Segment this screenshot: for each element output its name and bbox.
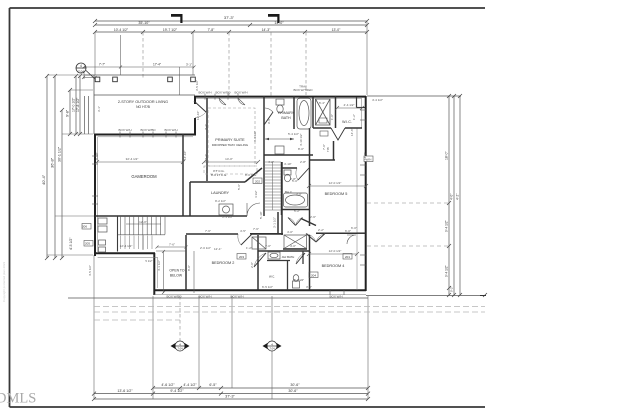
svg-text:7'-0": 7'-0" (265, 244, 271, 248)
dim line segments row (95, 31, 367, 33)
balcony east wall (door gap) (194, 96, 196, 104)
svg-text:BELOW: BELOW (170, 274, 183, 278)
svg-text:Copyright protected plan 2023: Copyright protected plan 2023 (2, 261, 6, 302)
wc walls bottom (267, 260, 290, 262)
svg-text:4'-1 1/2": 4'-1 1/2" (157, 260, 161, 271)
svg-text:7'-7": 7'-7" (99, 63, 105, 67)
svg-text:204: 204 (311, 274, 316, 278)
west wall (94, 134, 96, 256)
svg-text:2'-2": 2'-2" (318, 228, 324, 232)
bottom ticks (92, 386, 370, 401)
svg-text:4: 4 (80, 64, 82, 68)
svg-text:8'-0 LT C.G.: 8'-0 LT C.G. (211, 173, 227, 177)
outdoor living south wall (94, 134, 196, 136)
svg-text:BOX W/BD: BOX W/BD (166, 295, 182, 299)
svg-text:10'-4 1/2": 10'-4 1/2" (114, 28, 129, 32)
svg-text:12'-0 1/2": 12'-0 1/2" (329, 181, 342, 185)
dim line 37'-3 (95, 20, 367, 22)
svg-text:7.04: 7.04 (269, 347, 275, 351)
svg-text:9'-8": 9'-8" (66, 109, 70, 117)
svg-text:17'-8 1/2": 17'-8 1/2" (76, 97, 80, 112)
svg-text:4'-5 1/2": 4'-5 1/2" (69, 237, 73, 250)
svg-text:30'-6": 30'-6" (290, 383, 300, 387)
svg-text:3'-1": 3'-1" (186, 63, 192, 67)
svg-text:6'-5 1/2": 6'-5 1/2" (262, 285, 273, 289)
gameroom south wall (94, 252, 155, 254)
bath arrow dim (265, 138, 294, 140)
svg-text:4'-10 1/2": 4'-10 1/2" (299, 133, 303, 146)
svg-text:BEDROOM 4: BEDROOM 4 (322, 264, 345, 268)
svg-text:BA.3: BA.3 (285, 190, 292, 194)
posts dim line (83, 66, 196, 69)
svg-text:7'-6": 7'-6" (169, 243, 175, 247)
svg-text:36'-8": 36'-8" (50, 157, 55, 168)
wc toilet bottom (293, 275, 300, 288)
south wall (154, 289, 366, 291)
powder bottom fixtures (252, 237, 266, 249)
svg-text:2'-0": 2'-0" (250, 262, 254, 268)
svg-text:3'-5 1/2": 3'-5 1/2" (195, 80, 199, 91)
svg-text:7.04: 7.04 (177, 347, 183, 351)
main stair (vertical run) (264, 162, 281, 210)
svg-text:PRIMARY: PRIMARY (278, 111, 295, 115)
svg-text:14'-3": 14'-3" (262, 28, 271, 32)
svg-text:LAUNDRY: LAUNDRY (211, 191, 230, 195)
closet left of stairs (117, 216, 119, 252)
boxed tags (82, 118, 352, 278)
svg-text:5'-6": 5'-6" (237, 184, 241, 190)
svg-text:14'-6": 14'-6" (363, 152, 367, 160)
east wall (365, 96, 367, 291)
black angle marks (171, 14, 280, 23)
primary toilet (275, 99, 284, 154)
tick marks top dims (93, 19, 369, 34)
fan/section callout symbols (175, 341, 277, 351)
bottom section walls (186, 233, 238, 235)
extension drop lines from top dims (95, 21, 367, 95)
bedroom5 south wall (301, 219, 316, 226)
svg-text:8'-0": 8'-0" (187, 265, 191, 271)
open to below dims (156, 246, 195, 295)
NE corner chase (357, 97, 366, 108)
dim line 35'-10 (95, 24, 367, 26)
svg-text:12'-4 1/2": 12'-4 1/2" (120, 244, 133, 248)
svg-text:14'-6": 14'-6" (350, 128, 354, 136)
svg-text:3'-1 1/2": 3'-1 1/2" (222, 215, 233, 219)
svg-text:3'-0": 3'-0" (296, 192, 302, 196)
svg-text:35'-10": 35'-10" (138, 21, 150, 25)
svg-text:PRIMARY SUITE: PRIMARY SUITE (215, 138, 245, 142)
svg-text:30'-6": 30'-6" (288, 389, 298, 393)
svg-text:T/B: T/B (326, 147, 330, 152)
laundry north wall (190, 181, 245, 183)
bottom vertical extension lines (94, 255, 368, 399)
svg-text:12'-10": 12'-10" (196, 111, 200, 120)
inner wall face lines (98, 99, 366, 295)
svg-text:4'-4 1/2": 4'-4 1/2" (372, 98, 383, 102)
svg-text:14'-0": 14'-0" (225, 157, 233, 161)
svg-text:1'-2": 1'-2" (246, 246, 252, 250)
svg-text:7'-8": 7'-8" (208, 28, 216, 32)
svg-text:17'-0 1/2": 17'-0 1/2" (72, 97, 76, 112)
svg-text:32'-4 1/2": 32'-4 1/2" (126, 157, 139, 161)
east wall window marks + tag (330, 110, 366, 295)
shower x-box (316, 99, 331, 125)
svg-text:DMLS: DMLS (0, 391, 36, 407)
svg-text:BOX W/H: BOX W/H (198, 295, 211, 299)
svg-text:6'-0": 6'-0" (351, 226, 357, 230)
svg-text:3'-1 1/2": 3'-1 1/2" (273, 217, 277, 228)
svg-text:8'-0": 8'-0" (298, 147, 304, 151)
svg-text:4'-4 1/2": 4'-4 1/2" (183, 383, 197, 387)
svg-text:4'-2": 4'-2" (268, 160, 274, 164)
svg-text:J&J BATH: J&J BATH (282, 255, 295, 259)
svg-text:BOX W/BD: BOX W/BD (140, 128, 156, 132)
svg-text:7'-6": 7'-6" (205, 229, 211, 233)
notch west wall (153, 253, 155, 295)
primary bath south wall (264, 154, 313, 156)
svg-text:9'-4 1/2": 9'-4 1/2" (170, 389, 184, 393)
svg-text:5'-4": 5'-4" (319, 101, 325, 105)
svg-text:8'-0 C.G.: 8'-0 C.G. (245, 173, 257, 177)
dashed ceiling box primary hall (204, 108, 257, 174)
svg-text:37'-3": 37'-3" (225, 395, 235, 399)
tiny scattered dimension texts (118, 80, 313, 160)
svg-text:4 1/2": 4 1/2" (254, 190, 258, 198)
svg-text:19'-7 1/2": 19'-7 1/2" (163, 28, 178, 32)
outdoor living thin boundary + posts (84, 75, 195, 134)
svg-text:13'-0": 13'-0" (332, 28, 341, 32)
bath divider (293, 96, 295, 129)
left dim ticks (45, 74, 82, 260)
mbath vanity (268, 252, 280, 259)
laundry diagonal (245, 168, 262, 182)
svg-text:6'-3 1/2": 6'-3 1/2" (294, 278, 304, 282)
svg-text:7'-4": 7'-4" (204, 154, 208, 160)
svg-text:9'-4 1/2": 9'-4 1/2" (445, 220, 449, 232)
svg-text:4'-4 1/2": 4'-4 1/2" (344, 103, 355, 107)
svg-text:W.C.: W.C. (269, 275, 275, 279)
svg-text:12'-0": 12'-0" (139, 220, 147, 224)
svg-text:W.I.C.: W.I.C. (342, 120, 352, 124)
svg-text:4'-0": 4'-0" (450, 194, 454, 200)
svg-text:GAMEROOM: GAMEROOM (131, 174, 157, 179)
callout circle top-left (76, 63, 95, 79)
svg-text:BOX W/H: BOX W/H (164, 128, 177, 132)
tub primary (297, 98, 311, 129)
linen closet with X (283, 248, 307, 250)
balcony door arc (194, 101, 206, 112)
svg-text:2'-8": 2'-8" (300, 160, 306, 164)
WIC west wall (335, 96, 337, 128)
bed5 bath fixtures (284, 170, 308, 207)
svg-text:9'-4 1/2": 9'-4 1/2" (445, 265, 449, 277)
svg-text:BOX W/TRED: BOX W/TRED (293, 88, 313, 92)
svg-text:5 1/2": 5 1/2" (145, 259, 152, 263)
svg-text:206: 206 (82, 225, 87, 229)
svg-text:BOX W/H: BOX W/H (329, 295, 342, 299)
svg-text:1'-0": 1'-0" (330, 114, 334, 120)
svg-text:18'-0": 18'-0" (445, 151, 449, 160)
svg-text:BOX W/H: BOX W/H (230, 295, 243, 299)
svg-text:OPEN TO: OPEN TO (169, 269, 184, 273)
svg-text:4'-0": 4'-0" (290, 244, 296, 248)
svg-text:12'-1": 12'-1" (214, 247, 222, 251)
svg-text:2'-0 1/2": 2'-0 1/2" (200, 246, 211, 250)
svg-text:5'-4 1/2": 5'-4 1/2" (288, 132, 299, 136)
svg-text:7'-6": 7'-6" (253, 227, 259, 231)
svg-text:4'-0": 4'-0" (287, 230, 293, 234)
svg-text:NO HT/B: NO HT/B (136, 105, 150, 109)
svg-text:30'-1 1/2": 30'-1 1/2" (58, 146, 62, 162)
svg-text:BEDROOM 2: BEDROOM 2 (212, 261, 235, 265)
svg-text:201: 201 (345, 255, 350, 259)
svg-text:5'-10": 5'-10" (259, 211, 263, 219)
svg-text:202: 202 (255, 180, 260, 184)
svg-text:7.04: 7.04 (78, 70, 84, 74)
svg-text:40'-4": 40'-4" (41, 174, 46, 185)
svg-text:14'-10": 14'-10" (183, 151, 187, 160)
svg-text:4'-10": 4'-10" (284, 162, 292, 166)
svg-text:7'-4": 7'-4" (204, 124, 208, 130)
svg-text:4'-2": 4'-2" (456, 194, 460, 200)
page border (10, 8, 486, 407)
laundry washer (219, 204, 233, 215)
corner tick bottom right (480, 295, 486, 297)
svg-text:BEDROOM 5: BEDROOM 5 (325, 192, 348, 196)
svg-text:4'-5 1/2": 4'-5 1/2" (88, 265, 92, 276)
svg-text:37'-3": 37'-3" (224, 15, 235, 20)
svg-text:DROPPED TRAY CEILING: DROPPED TRAY CEILING (212, 143, 249, 147)
left extension horizontals (47, 75, 94, 255)
svg-text:17'-4": 17'-4" (153, 63, 161, 67)
svg-text:BOX W/BD: BOX W/BD (215, 91, 231, 95)
svg-text:4'-5": 4'-5" (240, 229, 246, 233)
hall/bed5 bath walls (282, 167, 297, 169)
north wall (194, 96, 366, 98)
svg-text:1'-2": 1'-2" (352, 114, 356, 120)
svg-text:BOX W/H: BOX W/H (234, 91, 247, 95)
laundry west wall (189, 182, 191, 216)
svg-text:9'-6": 9'-6" (267, 118, 271, 124)
gameroom/laundry south wall (95, 215, 247, 217)
svg-text:5'-2": 5'-2" (294, 209, 300, 213)
svg-text:9'-2 1/2": 9'-2 1/2" (215, 199, 226, 203)
svg-text:2-STORY OUTDOOR LIVING: 2-STORY OUTDOOR LIVING (118, 100, 168, 104)
svg-text:0'-2": 0'-2" (450, 286, 454, 292)
svg-text:13'-6 1/2": 13'-6 1/2" (117, 389, 133, 393)
stairwell walls (263, 96, 265, 216)
svg-text:BOX W/H: BOX W/H (118, 128, 131, 132)
svg-text:3'-1": 3'-1" (97, 106, 101, 112)
gameroom stair run 1 (118, 216, 166, 235)
west wall window ticks (92, 94, 238, 204)
svg-text:203: 203 (239, 255, 244, 259)
svg-text:12'-0 1/2": 12'-0 1/2" (329, 249, 342, 253)
svg-text:205: 205 (85, 242, 90, 246)
svg-text:BATH: BATH (281, 116, 291, 120)
svg-text:4'-4 1/2": 4'-4 1/2" (253, 131, 257, 142)
svg-text:4'-6 1/2": 4'-6 1/2" (161, 383, 175, 387)
svg-text:3'-0": 3'-0" (306, 285, 312, 289)
svg-text:6'-5": 6'-5" (209, 383, 217, 387)
double dashed porch lines (94, 307, 485, 321)
svg-text:2'-6": 2'-6" (310, 215, 316, 219)
stair arrow (126, 224, 161, 250)
svg-text:5'-0": 5'-0" (292, 179, 298, 183)
gameroom east wall (182, 134, 184, 216)
gameroom stair run 2 (121, 236, 153, 250)
primary suite west wall (206, 98, 208, 181)
